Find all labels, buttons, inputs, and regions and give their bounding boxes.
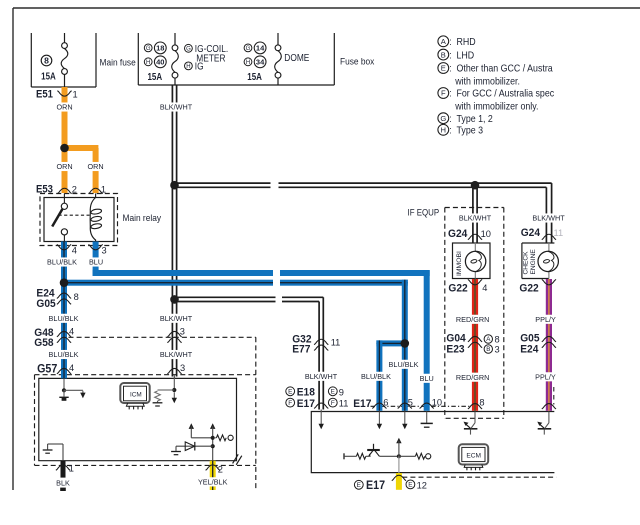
- svg-text:BLU/BLK: BLU/BLK: [389, 360, 419, 369]
- svg-text:E53: E53: [36, 184, 53, 196]
- svg-text:6: 6: [383, 398, 388, 408]
- svg-text:RED/GRN: RED/GRN: [456, 315, 489, 324]
- svg-text::: :: [449, 48, 451, 60]
- svg-text:E: E: [357, 482, 361, 489]
- svg-text:BLK/WHT: BLK/WHT: [160, 314, 193, 323]
- svg-text:G: G: [146, 46, 151, 52]
- svg-text:15A: 15A: [147, 71, 162, 82]
- svg-text:BLK/WHT: BLK/WHT: [532, 214, 565, 223]
- svg-text:E17: E17: [297, 397, 315, 409]
- svg-text:G: G: [440, 114, 446, 123]
- svg-text:CHECK: CHECK: [523, 251, 530, 275]
- svg-text:8: 8: [495, 335, 500, 345]
- svg-text:4: 4: [69, 363, 74, 373]
- svg-text:YEL/BLK: YEL/BLK: [198, 477, 228, 486]
- svg-text:PPL/Y: PPL/Y: [535, 372, 556, 381]
- svg-text:F: F: [331, 400, 335, 407]
- svg-text:ECM: ECM: [466, 453, 481, 460]
- svg-text:1: 1: [69, 463, 74, 473]
- svg-text:H: H: [146, 60, 150, 66]
- svg-text:E17: E17: [353, 397, 371, 409]
- svg-text:G05: G05: [36, 298, 55, 310]
- svg-text:BLU: BLU: [420, 374, 434, 383]
- svg-text:PPL/Y: PPL/Y: [535, 315, 556, 324]
- svg-text:BLU: BLU: [89, 258, 103, 267]
- svg-text:BLK/WHT: BLK/WHT: [160, 350, 193, 359]
- svg-text:3: 3: [495, 345, 500, 355]
- svg-text:15A: 15A: [247, 71, 262, 82]
- svg-text:RHD: RHD: [457, 36, 476, 48]
- svg-text:DOME: DOME: [284, 52, 309, 63]
- svg-text:with immobilizer.: with immobilizer.: [454, 76, 520, 88]
- svg-text:F: F: [288, 400, 292, 407]
- svg-text:10: 10: [481, 229, 491, 239]
- svg-text:8: 8: [74, 292, 79, 302]
- svg-text:1: 1: [101, 184, 106, 194]
- svg-text:40: 40: [156, 58, 164, 67]
- svg-text:Type 3: Type 3: [457, 125, 484, 137]
- svg-text:with immobilizer only.: with immobilizer only.: [454, 101, 538, 113]
- svg-text:BLK/WHT: BLK/WHT: [459, 214, 492, 223]
- svg-text:4: 4: [72, 246, 77, 256]
- svg-text::: :: [449, 62, 451, 74]
- svg-text:B: B: [441, 50, 446, 59]
- svg-text:E: E: [441, 64, 446, 73]
- svg-text:4: 4: [69, 327, 74, 337]
- svg-text:E23: E23: [446, 343, 464, 355]
- svg-text:LHD: LHD: [457, 50, 475, 62]
- svg-text:G: G: [246, 46, 251, 52]
- svg-text:BLU/BLK: BLU/BLK: [361, 372, 391, 381]
- svg-text:BLK/WHT: BLK/WHT: [305, 372, 338, 381]
- svg-text:9: 9: [339, 387, 344, 397]
- svg-text:15A: 15A: [41, 70, 56, 81]
- svg-text:18: 18: [156, 44, 164, 53]
- svg-text::: :: [449, 112, 451, 124]
- svg-text:E51: E51: [36, 89, 53, 101]
- svg-text:G22: G22: [519, 282, 538, 294]
- svg-text:E: E: [288, 389, 292, 396]
- svg-text::: :: [449, 35, 451, 47]
- svg-text:10: 10: [432, 397, 442, 407]
- svg-text:RED/GRN: RED/GRN: [456, 373, 489, 382]
- svg-text:Type 1, 2: Type 1, 2: [457, 113, 493, 125]
- svg-text:E: E: [331, 389, 335, 396]
- svg-text:G22: G22: [448, 282, 467, 294]
- svg-text:For GCC / Australia spec: For GCC / Australia spec: [457, 88, 555, 100]
- svg-text:34: 34: [256, 58, 265, 67]
- svg-text:BLK/WHT: BLK/WHT: [160, 103, 193, 112]
- svg-text:5: 5: [408, 398, 413, 408]
- svg-text:8: 8: [479, 397, 484, 407]
- svg-text:14: 14: [256, 44, 265, 53]
- svg-text:E77: E77: [292, 343, 310, 355]
- svg-text:ORN: ORN: [56, 103, 72, 112]
- svg-text:2: 2: [218, 465, 223, 475]
- svg-text:G24: G24: [448, 228, 467, 240]
- svg-text:12: 12: [417, 480, 427, 490]
- svg-text:G58: G58: [34, 336, 53, 348]
- svg-text:IF EQUP: IF EQUP: [408, 207, 440, 218]
- svg-text:G24: G24: [521, 227, 540, 239]
- svg-text:ORN: ORN: [88, 162, 104, 171]
- svg-text:1: 1: [73, 89, 78, 99]
- svg-text:B: B: [486, 346, 490, 353]
- svg-text:H: H: [441, 126, 446, 135]
- svg-text:11: 11: [331, 338, 341, 348]
- svg-text:ICM: ICM: [130, 391, 142, 398]
- svg-text:F: F: [441, 89, 446, 98]
- svg-text:Fuse box: Fuse box: [340, 56, 375, 67]
- svg-text:IMMOBI: IMMOBI: [456, 251, 463, 276]
- svg-text:3: 3: [180, 327, 185, 337]
- svg-text:E24: E24: [520, 343, 538, 355]
- svg-text::: :: [449, 124, 451, 136]
- svg-text:E17: E17: [366, 480, 385, 492]
- svg-text:E: E: [408, 482, 412, 489]
- svg-text:IG: IG: [195, 61, 204, 72]
- svg-text:G57: G57: [37, 363, 57, 375]
- svg-text:BLK: BLK: [56, 478, 70, 487]
- svg-text:H: H: [246, 60, 250, 66]
- svg-text:BLU/BLK: BLU/BLK: [49, 314, 79, 323]
- svg-text:G: G: [186, 46, 191, 52]
- svg-text:BLU/BLK: BLU/BLK: [49, 350, 79, 359]
- svg-text:11: 11: [554, 228, 564, 238]
- svg-text:4: 4: [482, 283, 487, 293]
- svg-text:2: 2: [72, 184, 77, 194]
- svg-text:3: 3: [102, 246, 107, 256]
- svg-text:ORN: ORN: [56, 162, 72, 171]
- svg-text:3: 3: [180, 363, 185, 373]
- svg-text:Main relay: Main relay: [123, 212, 162, 223]
- svg-text:8: 8: [44, 56, 49, 66]
- svg-text:11: 11: [339, 398, 349, 408]
- svg-text:ENGINE: ENGINE: [530, 249, 537, 275]
- svg-text:Main fuse: Main fuse: [100, 57, 136, 68]
- svg-text:H: H: [186, 64, 190, 70]
- svg-text:Other than GCC / Austra: Other than GCC / Austra: [457, 63, 554, 75]
- svg-text::: :: [449, 87, 451, 99]
- svg-text:BLU/BLK: BLU/BLK: [47, 258, 77, 267]
